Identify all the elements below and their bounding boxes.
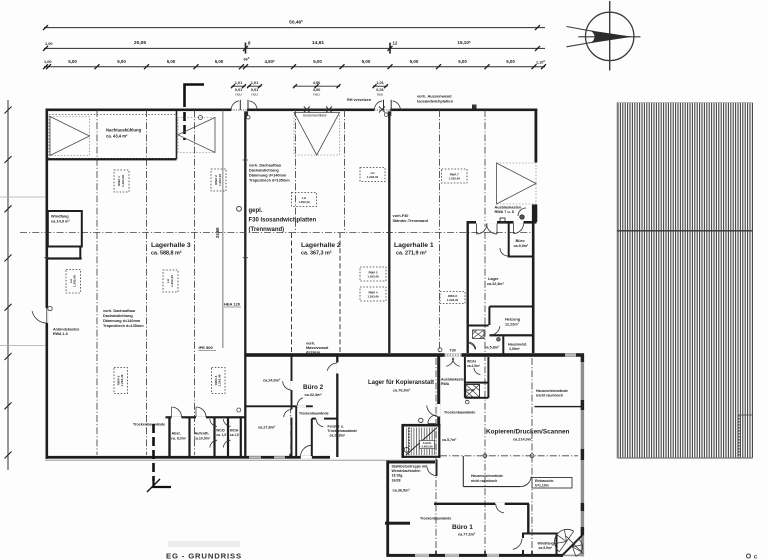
svg-text:4,00: 4,00 bbox=[313, 87, 321, 92]
office south wall bbox=[387, 554, 564, 557]
Hausmeister room bbox=[502, 337, 504, 355]
svg-text:0,01: 0,01 bbox=[376, 87, 384, 92]
Buero room walls bbox=[508, 222, 510, 257]
door arc on west wall bbox=[45, 308, 48, 323]
svg-text:1.293,49: 1.293,49 bbox=[218, 174, 222, 186]
dotted RWA/LH marker boxes bbox=[114, 170, 129, 192]
outer wall: top (north) of halls bbox=[46, 109, 537, 112]
south wall of small-room strip with window segments bbox=[246, 456, 330, 459]
Buero 1 north wall bbox=[434, 503, 529, 505]
wall x=337 with door bbox=[336, 356, 338, 457]
shaft dark box bbox=[464, 357, 466, 398]
svg-text:Dachabdichtung: Dachabdichtung bbox=[249, 169, 279, 173]
horizontal parting line in hatch bbox=[617, 230, 753, 232]
svg-text:5,00: 5,00 bbox=[362, 59, 371, 64]
Windfang room SE bbox=[523, 534, 557, 556]
WC room bbox=[467, 325, 489, 327]
small fenced corner in hatch bottom right bbox=[739, 414, 753, 416]
ceiling ventilator triangle (Lagerhalle 2 top) bbox=[294, 113, 340, 156]
svg-text:15,105: 15,105 bbox=[457, 40, 471, 45]
svg-text:Einbauschr.: Einbauschr. bbox=[535, 479, 554, 483]
svg-text:2.693,36: 2.693,36 bbox=[421, 444, 433, 448]
svg-text:Deckenventilator: Deckenventilator bbox=[303, 114, 328, 118]
outer wall: top-right segment of Lagerhalle 1 (east) bbox=[535, 109, 538, 163]
svg-text:5,00: 5,00 bbox=[313, 59, 322, 64]
annex door arcs interior bbox=[500, 248, 508, 256]
svg-text:RWA: RWA bbox=[441, 382, 450, 386]
svg-text:0,01: 0,01 bbox=[235, 87, 243, 92]
svg-text:1.293,49: 1.293,49 bbox=[218, 374, 222, 386]
svg-text:5,00: 5,00 bbox=[215, 59, 224, 64]
svg-text:5,00: 5,00 bbox=[506, 59, 515, 64]
door openings + arcs on strip top wall bbox=[172, 416, 182, 418]
svg-text:Büro 2: Büro 2 bbox=[303, 384, 324, 391]
svg-text:O: O bbox=[746, 553, 752, 560]
stairwell bbox=[402, 424, 441, 427]
top dimension chain 3 (5,00 bays) bbox=[43, 56, 546, 69]
svg-text:c: c bbox=[754, 553, 758, 560]
svg-text:Trockenbauwände: Trockenbauwände bbox=[133, 423, 165, 427]
double door in north wall at x~382 bbox=[374, 108, 390, 111]
svg-text:leicht raumhoch: leicht raumhoch bbox=[536, 394, 563, 398]
annex north wall bbox=[467, 221, 537, 224]
svg-text:neu: neu bbox=[313, 93, 319, 97]
svg-text:WC/D: WC/D bbox=[467, 388, 476, 392]
svg-text:Trapezblech d=135mm: Trapezblech d=135mm bbox=[249, 179, 290, 183]
svg-text:ca.77,3m²: ca.77,3m² bbox=[458, 533, 476, 537]
svg-text:5,00: 5,00 bbox=[68, 59, 77, 64]
fan door (revolving) SE corner bbox=[563, 535, 583, 555]
svg-text:vorh.: vorh. bbox=[306, 342, 315, 346]
svg-text:neu: neu bbox=[235, 93, 241, 97]
svg-text:ca.24,9m²: ca.24,9m² bbox=[263, 379, 281, 383]
svg-text:Dachabdichtung: Dachabdichtung bbox=[103, 314, 133, 318]
grid axis through annex and office x~485 bbox=[484, 110, 486, 553]
room Nachtauskuehlung (top-left) bbox=[46, 158, 177, 160]
svg-text:vorh. Dachaufbau: vorh. Dachaufbau bbox=[103, 309, 136, 313]
svg-text:1.293,49: 1.293,49 bbox=[449, 176, 461, 180]
svg-text:1.293,49: 1.293,49 bbox=[367, 294, 379, 298]
svg-text:16/28: 16/28 bbox=[392, 478, 401, 482]
section line marker top (x~184) bbox=[185, 85, 205, 108]
Einbauschrank box bbox=[532, 478, 572, 489]
annex door arcs on north wall bbox=[477, 224, 488, 235]
svg-text:ca.9,9m²: ca.9,9m² bbox=[514, 244, 530, 248]
svg-text:1.293,49: 1.293,49 bbox=[367, 274, 379, 278]
svg-text:neu: neu bbox=[377, 93, 383, 97]
svg-text:Stahlbetontreppe mit: Stahlbetontreppe mit bbox=[392, 465, 429, 469]
svg-text:Wendelaufstufen: Wendelaufstufen bbox=[392, 469, 421, 473]
svg-text:ca. 1,5: ca. 1,5 bbox=[216, 433, 226, 437]
svg-text:Lager: Lager bbox=[488, 276, 499, 281]
svg-text:ca.32,3m²: ca.32,3m² bbox=[305, 393, 323, 397]
svg-text:Lagerhalle 1: Lagerhalle 1 bbox=[394, 242, 434, 249]
Buero2 west wall door arcs bbox=[291, 381, 293, 390]
svg-text:ca.76,9m²: ca.76,9m² bbox=[393, 389, 411, 393]
dash-dot x=290.7 lower part bbox=[290, 406, 292, 455]
svg-text:Büro 1: Büro 1 bbox=[452, 524, 473, 531]
svg-text:EG - GRUNDRISS: EG - GRUNDRISS bbox=[166, 552, 242, 560]
gate symbol G2 bbox=[178, 118, 215, 153]
svg-text:5,00: 5,00 bbox=[117, 59, 126, 64]
svg-text:Dämmung d=140mm: Dämmung d=140mm bbox=[249, 174, 287, 178]
wall fragment x 385-410 y 523 bbox=[385, 522, 410, 525]
svg-text:neu: neu bbox=[251, 93, 257, 97]
svg-text:ca.27,8m²: ca.27,8m² bbox=[258, 426, 276, 430]
Heizung room bbox=[489, 306, 534, 308]
vertical dim line 24,68 at x=222.9 bbox=[222, 110, 224, 348]
svg-text:4,50: 4,50 bbox=[313, 80, 321, 85]
svg-text:Lager für Kopieranstalt: Lager für Kopieranstalt bbox=[368, 380, 434, 386]
horizontal grid axis office y=456 bbox=[440, 455, 578, 457]
outer wall: left (west) bbox=[46, 109, 49, 459]
svg-text:14,91: 14,91 bbox=[312, 40, 325, 46]
x-markers on north wall bbox=[304, 107, 310, 113]
svg-text:vorh. Dachaufbau: vorh. Dachaufbau bbox=[249, 164, 282, 168]
ticks at bottom wall bbox=[435, 551, 437, 556]
svg-text:h=1,10m: h=1,10m bbox=[535, 483, 549, 487]
small service rooms strip x 165-246 bbox=[166, 416, 247, 418]
svg-text:ca. 367,3 m²: ca. 367,3 m² bbox=[301, 251, 332, 257]
office west wall upper (x=438.5) bbox=[437, 356, 440, 426]
svg-text:50,465: 50,465 bbox=[289, 19, 303, 25]
svg-text:Kopieren/Drucken/Scannen: Kopieren/Drucken/Scannen bbox=[486, 429, 570, 436]
small cross ticks on divider walls bbox=[243, 255, 248, 260]
section line marker bottom (x~153.5) bbox=[152, 424, 155, 481]
svg-text:Isosandwichplatten: Isosandwichplatten bbox=[417, 99, 454, 104]
svg-text:1.293,49: 1.293,49 bbox=[367, 175, 379, 179]
svg-text:ca.36,5m²: ca.36,5m² bbox=[393, 489, 411, 493]
svg-text:4,930: 4,930 bbox=[264, 59, 275, 64]
svg-text:ca.214,0m²: ca.214,0m² bbox=[513, 438, 533, 442]
svg-text:665: 665 bbox=[244, 56, 250, 61]
svg-text:5,00: 5,00 bbox=[458, 59, 467, 64]
svg-text:Heizung: Heizung bbox=[505, 317, 521, 322]
svg-text:Hausmeist.: Hausmeist. bbox=[508, 343, 527, 347]
grid line axes (vertical dash-dot) bbox=[96, 110, 98, 455]
svg-text:T30: T30 bbox=[450, 349, 456, 353]
annex east wall bbox=[532, 205, 535, 354]
svg-text:Abst.: Abst. bbox=[172, 432, 181, 436]
svg-text:Windfang: Windfang bbox=[538, 542, 554, 546]
door arc in wall y=406 bbox=[297, 398, 303, 407]
wall Lagerhalle 2 / 1 divider (vorh. F30) bbox=[388, 109, 390, 353]
svg-text:RH versetzen: RH versetzen bbox=[347, 98, 372, 102]
svg-text:Ständer-Trennwand: Ständer-Trennwand bbox=[393, 219, 429, 223]
top dimension chain 1 (total 50,46) bbox=[43, 19, 545, 30]
hatched site area (vertical line texture) right side bbox=[617, 103, 753, 459]
planned partition dashed lines (gepl. Trennwand) bbox=[291, 233, 293, 352]
svg-text:ca.4,5m²: ca.4,5m² bbox=[467, 364, 480, 368]
top dimension chain 2 (20,05 / 14,91 / 15,10) bbox=[43, 40, 545, 54]
svg-text:ca.5,7m²: ca.5,7m² bbox=[442, 438, 457, 442]
svg-text:1.293,49: 1.293,49 bbox=[298, 200, 310, 204]
svg-text:Nachtauskühlung: Nachtauskühlung bbox=[106, 128, 142, 133]
small dimension cluster 1,01/0,01 neu (left pair) bbox=[231, 80, 262, 97]
svg-text:(Trennwand): (Trennwand) bbox=[249, 227, 285, 233]
svg-text:ca.23,8m²: ca.23,8m² bbox=[330, 434, 346, 438]
wall x=296 (room ca.27.8 right) bbox=[295, 406, 297, 457]
svg-text:F30 Isosandwichplatten: F30 Isosandwichplatten bbox=[249, 218, 317, 224]
east wall between gate and annex bbox=[535, 205, 538, 223]
svg-text:Lagerhalle 3: Lagerhalle 3 bbox=[151, 242, 191, 249]
svg-text:ca.22,3m²: ca.22,3m² bbox=[487, 282, 505, 286]
svg-text:1.293,49: 1.293,49 bbox=[73, 275, 77, 287]
svg-text:5,00: 5,00 bbox=[167, 59, 176, 64]
svg-text:5,00: 5,00 bbox=[410, 59, 419, 64]
svg-text:nicht raumhoch: nicht raumhoch bbox=[471, 479, 497, 483]
svg-text:ca.14,9 m²: ca.14,9 m² bbox=[51, 219, 71, 224]
svg-text:12,22m²: 12,22m² bbox=[505, 323, 520, 327]
office west wall lower (x=387.5) bbox=[386, 461, 389, 557]
svg-text:RWA 7 u. 8: RWA 7 u. 8 bbox=[495, 210, 514, 214]
svg-text:Trapezblech d=135mm: Trapezblech d=135mm bbox=[103, 324, 144, 328]
massive wall (vorh. Massivwand d=24cm) bbox=[246, 353, 584, 357]
svg-text:1,01: 1,01 bbox=[251, 80, 259, 85]
wall Lagerhalle 3 / 2 divider bbox=[244, 109, 246, 456]
svg-text:20,05: 20,05 bbox=[134, 40, 147, 46]
svg-text:ca.10,0m²: ca.10,0m² bbox=[194, 437, 211, 441]
svg-text:ca.5,8m²: ca.5,8m² bbox=[485, 346, 501, 350]
svg-text:1.202,40: 1.202,40 bbox=[170, 275, 174, 287]
wall y=406.5 top right room bbox=[535, 406, 582, 407]
small column stub on annex wall bbox=[500, 218, 505, 222]
svg-text:d=24cm: d=24cm bbox=[306, 351, 321, 355]
leader lines to west wall bbox=[0, 196, 45, 198]
gate symbol G4 in east wall of Lagerhalle 1 bbox=[497, 163, 537, 204]
svg-text:1,105: 1,105 bbox=[536, 59, 545, 64]
wall y=406 under Buero2 bbox=[246, 405, 313, 407]
wall below stair block y=462 bbox=[387, 461, 436, 464]
svg-text:ca. 43,4 m²: ca. 43,4 m² bbox=[106, 134, 128, 139]
svg-text:1.293,49: 1.293,49 bbox=[121, 175, 125, 187]
outer wall: hall south wall bbox=[46, 456, 247, 459]
grid axis horizontal y~232.5 bbox=[20, 232, 533, 234]
svg-text:gepl.: gepl. bbox=[249, 208, 263, 214]
svg-text:ca. 588,8 m²: ca. 588,8 m² bbox=[151, 251, 182, 257]
svg-text:ca. 8,0m²: ca. 8,0m² bbox=[171, 437, 187, 441]
svg-text:ca. 271,9 m²: ca. 271,9 m² bbox=[396, 251, 427, 257]
svg-text:1,00: 1,00 bbox=[44, 59, 52, 64]
room Windfang west bbox=[48, 211, 82, 247]
svg-text:Hausmeisterwände: Hausmeisterwände bbox=[536, 389, 568, 393]
svg-text:1,00: 1,00 bbox=[45, 41, 53, 46]
svg-text:1.293,49: 1.293,49 bbox=[120, 374, 124, 386]
svg-text:Trockenbauwände: Trockenbauwände bbox=[444, 411, 475, 415]
svg-text:Trockenbauwände: Trockenbauwände bbox=[299, 411, 329, 415]
svg-text:Lagerhalle 2: Lagerhalle 2 bbox=[301, 242, 341, 249]
svg-text:8: 8 bbox=[248, 41, 251, 46]
svg-text:1,01: 1,01 bbox=[376, 80, 384, 85]
ground line under south facade bbox=[45, 459, 436, 461]
svg-text:Trockenbauwände: Trockenbauwände bbox=[328, 429, 358, 433]
svg-text:1.293,49: 1.293,49 bbox=[447, 298, 459, 302]
svg-text:24,68: 24,68 bbox=[215, 227, 220, 238]
svg-text:IPE 500: IPE 500 bbox=[199, 345, 214, 350]
north arrow compass bbox=[567, 1, 641, 71]
small dimension cluster 4,50/4,00 neu bbox=[293, 80, 341, 97]
svg-text:1,01: 1,01 bbox=[235, 80, 243, 85]
svg-text:Hausmeisterwände: Hausmeisterwände bbox=[471, 474, 503, 478]
svg-text:Massivwand: Massivwand bbox=[306, 346, 329, 350]
svg-text:ca.1,5: ca.1,5 bbox=[230, 433, 239, 437]
svg-text:18 Stg.: 18 Stg. bbox=[392, 474, 404, 478]
Hausmeisterwaende nicht raumhoch wall + label bbox=[462, 456, 464, 487]
dash-dot office verticals bbox=[435, 358, 437, 553]
svg-text:12: 12 bbox=[393, 41, 398, 46]
svg-text:0,01: 0,01 bbox=[251, 87, 259, 92]
double door in north wall at x~239 bbox=[231, 108, 247, 111]
door above stairwell bbox=[428, 415, 437, 424]
svg-text:Ausblaskasten: Ausblaskasten bbox=[495, 206, 522, 210]
left border dimension line x=8 bbox=[7, 100, 9, 470]
svg-text:Anbindekasten: Anbindekasten bbox=[53, 328, 80, 332]
svg-text:ca.9,9m²: ca.9,9m² bbox=[539, 546, 553, 550]
svg-text:Aufenth.: Aufenth. bbox=[195, 432, 210, 436]
svg-text:3,09m²: 3,09m² bbox=[509, 347, 521, 351]
svg-text:HEA 120: HEA 120 bbox=[224, 302, 241, 307]
gate symbol G1 (folding door triangle) bbox=[50, 117, 90, 156]
annex west wall bbox=[467, 221, 469, 353]
Fenster room walls bbox=[312, 418, 338, 420]
svg-text:RWA 1-6: RWA 1-6 bbox=[53, 332, 68, 336]
office east wall (window facade) bbox=[581, 354, 584, 557]
svg-text:Dämmung d=140mm: Dämmung d=140mm bbox=[103, 319, 141, 323]
wall x=291 bbox=[291, 356, 293, 457]
small dimension cluster 1,01/0,01 neu (right) bbox=[373, 80, 389, 97]
svg-text:vorh.F30: vorh.F30 bbox=[393, 214, 409, 218]
door arc room 27.8 bottom bbox=[301, 456, 312, 459]
svg-text:Büro: Büro bbox=[516, 238, 526, 243]
